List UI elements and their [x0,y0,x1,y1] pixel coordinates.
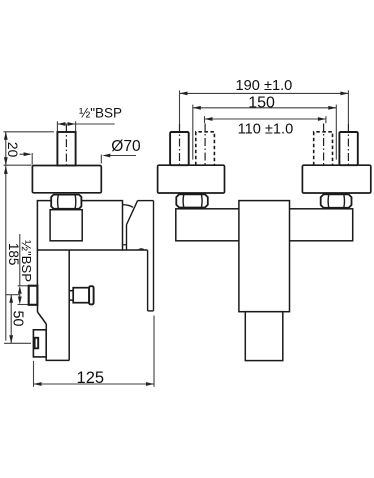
hidden shank front left [196,132,215,165]
label 190 plus-minus 1.0 [236,78,293,94]
dimension 20 shank height [4,132,54,165]
solid shank front right [339,132,357,165]
dimension 110 inner centres [205,116,326,123]
svg-text:125: 125 [77,369,105,387]
centre column front view [239,201,290,312]
dimension half-BSP top shank width [57,121,114,131]
diverter knob stem [69,291,73,300]
centreline left-view shank [65,125,67,167]
label half-BSP side [19,240,34,282]
screw detail under body [138,248,145,250]
label 125 [77,369,105,387]
side outlet half-BSP [29,286,38,305]
svg-text:Ø70: Ø70 [111,138,141,155]
dimension 190 outer centres [180,90,349,124]
dimension 150 middle centres [193,105,336,160]
centreline front right hidden shank [323,124,325,166]
label diameter 70 [111,138,141,155]
tail spout front view [245,312,282,361]
svg-text:190 ±1.0: 190 ±1.0 [236,78,293,94]
centreline front right solid shank [347,124,349,165]
body bar front view [176,209,353,241]
dimension 185 overall height [4,165,31,343]
valve cartridge rect [50,210,82,241]
hidden shank front right [314,132,333,165]
dimension half-BSP side outlet [18,234,29,305]
solid shank front left [170,132,189,165]
svg-text:20: 20 [5,142,20,158]
flange front left [158,165,225,193]
label half-BSP top [79,106,122,121]
dimension 125 depth [34,316,155,387]
dimension 50 outlet spacing [6,295,20,344]
svg-text:110 ±1.0: 110 ±1.0 [238,122,294,138]
hex nut front right [321,194,352,207]
centreline front left hidden shank [204,124,206,166]
diverter knob body [73,288,89,303]
lower column side view [37,250,69,360]
diverter knob cap [89,286,94,304]
svg-text:150: 150 [248,94,275,111]
hex nut side view [51,195,81,209]
body block side view [37,201,122,250]
svg-text:½"BSP: ½"BSP [19,240,34,282]
label 20 [5,142,20,158]
svg-text:50: 50 [10,311,26,327]
hex nut front left [176,194,208,207]
inlet shank side view [57,132,75,166]
svg-text:½"BSP: ½"BSP [79,106,122,121]
flange front right [302,165,370,193]
foot inner detail [35,338,39,349]
centreline front left solid shank [179,124,181,165]
svg-text:185: 185 [6,243,21,266]
dimension diameter 70 leader [101,154,136,164]
label 50 [10,311,26,327]
handle lever side view [123,201,154,311]
label 110 plus-minus 1.0 [238,122,294,138]
flange side view [32,166,101,193]
label 150 [248,94,275,111]
foot bracket [33,330,46,357]
label 185 [6,243,21,266]
body bottom edge extension [122,249,148,251]
